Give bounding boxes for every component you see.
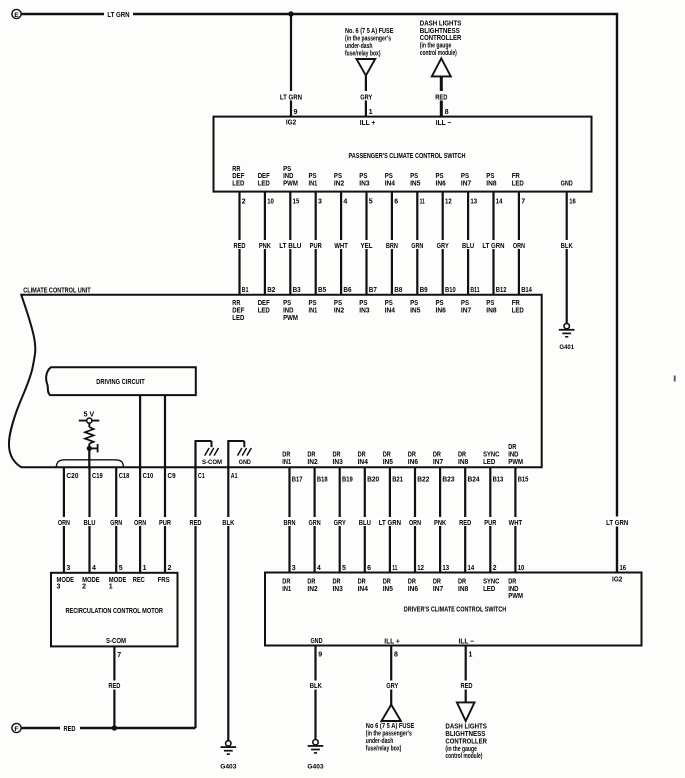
svg-text:YEL: YEL bbox=[360, 243, 373, 250]
svg-text:BRN: BRN bbox=[283, 520, 295, 527]
svg-text:2: 2 bbox=[168, 565, 172, 572]
svg-text:ILL +: ILL + bbox=[360, 118, 376, 127]
svg-text:ORN: ORN bbox=[58, 520, 70, 527]
svg-text:1: 1 bbox=[109, 583, 113, 590]
svg-text:IN1: IN1 bbox=[309, 308, 318, 315]
svg-text:2: 2 bbox=[242, 199, 246, 206]
svg-text:BLU: BLU bbox=[462, 243, 474, 250]
ground G403 (A1) bbox=[220, 741, 236, 771]
svg-text:GRY: GRY bbox=[437, 243, 449, 250]
svg-text:PS: PS bbox=[309, 173, 317, 180]
svg-text:DR: DR bbox=[458, 451, 466, 458]
svg-text:DR: DR bbox=[508, 578, 516, 585]
svg-text:B9: B9 bbox=[420, 287, 428, 294]
pin PS IN6 label (passenger switch, pin 12) bbox=[436, 173, 446, 187]
svg-text:DRIVER'S CLIMATE CONTROL SWITC: DRIVER'S CLIMATE CONTROL SWITCH bbox=[404, 604, 507, 613]
svg-text:IND: IND bbox=[283, 308, 293, 315]
svg-text:LT GRN: LT GRN bbox=[107, 12, 129, 19]
svg-text:PS: PS bbox=[385, 173, 393, 180]
svg-text:11: 11 bbox=[420, 199, 425, 206]
svg-text:DR: DR bbox=[333, 578, 341, 585]
svg-text:PUR: PUR bbox=[310, 243, 322, 250]
pin PS IN2 label (passenger switch, pin 4) bbox=[334, 173, 344, 187]
wire GRN from unit B18 to driver switch pin 4 bbox=[308, 467, 328, 572]
svg-text:BLK: BLK bbox=[310, 683, 322, 690]
wire PUR from unit B13 to driver switch pin 2 bbox=[483, 467, 503, 572]
wire BLU from passenger switch pin 13 to climate control unit B11 bbox=[461, 192, 480, 295]
svg-text:RR: RR bbox=[232, 166, 240, 173]
pin DR IN1 label (climate control unit bottom) bbox=[282, 451, 291, 465]
svg-text:control module): control module) bbox=[445, 753, 482, 760]
svg-text:3: 3 bbox=[57, 583, 61, 590]
wire RED from motor S-COM pin 7 to junction bbox=[107, 646, 123, 728]
dash lights brightness controller symbol (top) bbox=[432, 58, 451, 76]
svg-text:7: 7 bbox=[521, 199, 525, 206]
wire BLU from unit B20 to driver switch pin 6 bbox=[358, 467, 380, 572]
pin DEF LED label (climate control unit top) bbox=[258, 300, 271, 314]
svg-text:under-dash: under-dash bbox=[366, 738, 394, 745]
svg-text:1: 1 bbox=[469, 651, 473, 658]
pin PS IN5 label (climate control unit top) bbox=[410, 300, 420, 314]
svg-text:12: 12 bbox=[417, 565, 424, 572]
wire wiper to C19 bbox=[88, 448, 90, 467]
pin DR IN4 label (driver switch top) bbox=[358, 578, 368, 592]
svg-text:IN3: IN3 bbox=[333, 459, 343, 466]
svg-text:PS: PS bbox=[436, 173, 444, 180]
svg-text:PS: PS bbox=[486, 300, 494, 307]
pin PS IN3 label (passenger switch, pin 5) bbox=[359, 173, 369, 187]
svg-text:2: 2 bbox=[82, 583, 86, 590]
svg-text:LED: LED bbox=[483, 459, 495, 466]
svg-text:IN2: IN2 bbox=[334, 308, 344, 315]
svg-text:GRY: GRY bbox=[334, 520, 346, 527]
svg-text:BLIGHTNESS: BLIGHTNESS bbox=[420, 28, 460, 35]
svg-text:16: 16 bbox=[620, 565, 627, 572]
svg-text:PUR: PUR bbox=[159, 520, 171, 527]
pin DR IN8 label (climate control unit bottom) bbox=[458, 451, 468, 465]
pin DR IN1 label (driver switch top) bbox=[282, 578, 291, 592]
pin ILL+ label (passenger switch) bbox=[360, 118, 376, 127]
wire GRN from passenger switch pin 11 to climate control unit B9 bbox=[410, 192, 428, 295]
resistor (5V pull-up) bbox=[85, 423, 94, 448]
pin RR DEF LED label (passenger switch, pin 2) bbox=[232, 166, 245, 188]
svg-text:CONTROLLER: CONTROLLER bbox=[445, 738, 487, 745]
svg-text:GRN: GRN bbox=[309, 520, 321, 527]
svg-text:GRN: GRN bbox=[411, 243, 423, 250]
svg-text:8: 8 bbox=[394, 651, 398, 658]
pin DR IN2 label (driver switch top) bbox=[307, 578, 317, 592]
svg-text:G401: G401 bbox=[559, 344, 574, 351]
svg-text:PASSENGER'S CLIMATE CONTROL SW: PASSENGER'S CLIMATE CONTROL SWITCH bbox=[349, 151, 466, 160]
svg-text:GRY: GRY bbox=[386, 683, 398, 690]
svg-text:A1: A1 bbox=[231, 473, 238, 480]
5V supply symbol bbox=[79, 411, 100, 423]
chassis symbol GND (A1) bbox=[227, 441, 251, 467]
svg-text:IN7: IN7 bbox=[433, 586, 443, 593]
svg-text:DR: DR bbox=[383, 451, 391, 458]
pin FR LED label (climate control unit top) bbox=[512, 300, 524, 314]
wire C9 from driving circuit bbox=[164, 395, 166, 467]
svg-text:3: 3 bbox=[318, 199, 322, 206]
svg-text:E: E bbox=[14, 12, 19, 19]
driving circuit box (torn left edge) bbox=[46, 367, 196, 395]
svg-text:PS: PS bbox=[410, 300, 418, 307]
svg-text:G403: G403 bbox=[220, 763, 236, 770]
svg-text:4: 4 bbox=[343, 199, 347, 206]
svg-text:ORN: ORN bbox=[134, 520, 146, 527]
svg-text:DRIVING CIRCUIT: DRIVING CIRCUIT bbox=[96, 377, 145, 386]
wire WHT from passenger switch pin 4 to climate control unit B6 bbox=[333, 192, 351, 295]
pin PS IND PWM label (climate control unit top) bbox=[283, 300, 298, 322]
svg-text:DASH LIGHTS: DASH LIGHTS bbox=[420, 20, 462, 27]
wire ORN from unit pin C20 to recirculation motor pin 3 bbox=[57, 467, 79, 573]
svg-text:No 6 (7 5 A) FUSE: No 6 (7 5 A) FUSE bbox=[366, 723, 415, 730]
svg-text:BLIGHTNESS: BLIGHTNESS bbox=[445, 731, 485, 738]
svg-text:DR: DR bbox=[358, 578, 366, 585]
wire LT GRN from passenger switch pin 14 to climate control unit B12 bbox=[481, 192, 506, 295]
pin ILL- label (driver switch bottom, pin 1) bbox=[459, 636, 475, 645]
svg-text:B19: B19 bbox=[342, 476, 353, 483]
svg-text:LT GRN: LT GRN bbox=[280, 94, 302, 101]
svg-text:C18: C18 bbox=[119, 473, 130, 480]
svg-text:LED: LED bbox=[232, 181, 244, 188]
svg-text:10: 10 bbox=[518, 565, 525, 572]
svg-text:DEF: DEF bbox=[232, 308, 245, 315]
svg-text:2: 2 bbox=[493, 565, 497, 572]
svg-text:PS: PS bbox=[283, 166, 291, 173]
svg-text:BLK: BLK bbox=[561, 243, 573, 250]
pin PS IN4 label (passenger switch, pin 6) bbox=[385, 173, 395, 187]
dash lights brightness controller symbol (bottom) bbox=[457, 702, 475, 721]
svg-text:BRN: BRN bbox=[386, 243, 398, 250]
svg-text:PNK: PNK bbox=[259, 243, 271, 250]
svg-text:IN4: IN4 bbox=[385, 308, 395, 315]
wire GRY from driver ILL+ pin 8 to fuse bbox=[383, 646, 400, 705]
svg-text:DR: DR bbox=[282, 451, 290, 458]
svg-text:DEF: DEF bbox=[258, 300, 271, 307]
svg-text:GRN: GRN bbox=[110, 520, 122, 527]
wire RED bottom rail F to C1 wire bbox=[21, 723, 195, 733]
pin S-COM label (recirculation motor, pin 7) bbox=[106, 638, 126, 645]
svg-text:GND: GND bbox=[561, 181, 573, 188]
svg-text:B1: B1 bbox=[242, 287, 249, 294]
svg-text:C10: C10 bbox=[143, 473, 154, 480]
svg-text:DR: DR bbox=[383, 578, 391, 585]
pin SYNC LED label (driver switch top) bbox=[483, 578, 499, 592]
pin DR IN5 label (climate control unit bottom) bbox=[383, 451, 393, 465]
svg-text:10: 10 bbox=[267, 199, 274, 206]
svg-text:G403: G403 bbox=[307, 763, 323, 770]
svg-text:IN8: IN8 bbox=[458, 459, 468, 466]
svg-text:C9: C9 bbox=[168, 473, 176, 480]
pin DR IN8 label (driver switch top) bbox=[458, 578, 468, 592]
pin DR IN2 label (climate control unit bottom) bbox=[307, 451, 317, 465]
pin MODE 2 label (recirculation motor, pin 4) bbox=[82, 577, 100, 591]
pin PS IN6 label (climate control unit top) bbox=[436, 300, 446, 314]
svg-text:LT GRN: LT GRN bbox=[379, 520, 401, 527]
svg-text:RED: RED bbox=[435, 94, 447, 101]
svg-text:LED: LED bbox=[258, 308, 270, 315]
svg-text:5: 5 bbox=[119, 565, 123, 572]
svg-text:RED: RED bbox=[460, 683, 472, 690]
svg-text:PWM: PWM bbox=[508, 593, 523, 600]
pin DR IN5 label (driver switch top) bbox=[383, 578, 393, 592]
pin DR IND PWM label (climate control unit bottom) bbox=[508, 444, 523, 466]
wire BLK from driver GND pin 9 to ground G403 bbox=[308, 646, 324, 740]
svg-text:B11: B11 bbox=[470, 287, 479, 294]
pin PS IN2 label (climate control unit top) bbox=[334, 300, 344, 314]
pin DR IN7 label (climate control unit bottom) bbox=[433, 451, 443, 465]
svg-text:15: 15 bbox=[293, 199, 300, 206]
wire GRN from unit pin C18 to recirculation motor pin 5 bbox=[109, 467, 129, 573]
pin PS IN5 label (passenger switch, pin 11) bbox=[410, 173, 420, 187]
connector F bbox=[12, 723, 21, 732]
svg-text:B15: B15 bbox=[518, 476, 529, 483]
svg-text:LED: LED bbox=[258, 181, 270, 188]
svg-text:(in the gauge: (in the gauge bbox=[445, 746, 477, 753]
pin REC label (recirculation motor, pin 1) bbox=[133, 577, 145, 584]
svg-text:DR: DR bbox=[358, 451, 366, 458]
pin GND label (passenger switch, pin 16) bbox=[561, 181, 573, 188]
svg-text:IN4: IN4 bbox=[358, 459, 368, 466]
svg-text:GND: GND bbox=[310, 638, 322, 645]
fuse No.6 label (bottom) bbox=[366, 723, 415, 752]
svg-text:LT GRN: LT GRN bbox=[606, 520, 628, 527]
svg-text:GND: GND bbox=[239, 459, 251, 466]
svg-text:C1: C1 bbox=[198, 473, 205, 480]
wire BLK from passenger switch GND pin 16 to ground G401 bbox=[559, 192, 576, 324]
svg-text:FR: FR bbox=[512, 173, 520, 180]
pin DEF LED label (passenger switch, pin 10) bbox=[258, 173, 271, 187]
pin PS IN1 label (passenger switch, pin 3) bbox=[309, 173, 318, 187]
svg-text:PS: PS bbox=[334, 173, 342, 180]
pin PS IN7 label (passenger switch, pin 13) bbox=[461, 173, 471, 187]
svg-text:IN8: IN8 bbox=[486, 181, 496, 188]
svg-text:SYNC: SYNC bbox=[483, 578, 499, 585]
node wiper junction bbox=[87, 444, 98, 452]
svg-text:6: 6 bbox=[394, 199, 398, 206]
svg-text:IN3: IN3 bbox=[359, 308, 369, 315]
svg-text:C19: C19 bbox=[92, 473, 103, 480]
svg-text:B17: B17 bbox=[292, 476, 303, 483]
svg-text:IN1: IN1 bbox=[282, 586, 291, 593]
svg-text:IN1: IN1 bbox=[309, 181, 318, 188]
pin IG2 label (passenger switch) bbox=[286, 120, 296, 127]
pin DR IN6 label (climate control unit bottom) bbox=[408, 451, 418, 465]
svg-text:GRY: GRY bbox=[360, 94, 372, 101]
connector E bbox=[12, 9, 21, 18]
svg-text:DASH LIGHTS: DASH LIGHTS bbox=[445, 724, 487, 731]
svg-text:13: 13 bbox=[470, 199, 477, 206]
dash lights controller label (top) bbox=[420, 20, 462, 57]
svg-text:WHT: WHT bbox=[334, 243, 348, 250]
svg-text:IN5: IN5 bbox=[410, 181, 420, 188]
svg-text:DR: DR bbox=[333, 451, 341, 458]
wire LT BLU from passenger switch pin 15 to climate control unit B3 bbox=[278, 192, 302, 295]
svg-text:BLU: BLU bbox=[83, 520, 95, 527]
pin DR IND PWM label (driver switch top) bbox=[508, 578, 523, 600]
svg-text:(in the gauge: (in the gauge bbox=[420, 43, 452, 50]
svg-text:SYNC: SYNC bbox=[483, 451, 499, 458]
svg-text:5: 5 bbox=[342, 565, 346, 572]
svg-text:IN8: IN8 bbox=[486, 308, 496, 315]
svg-text:B7: B7 bbox=[369, 287, 377, 294]
pin SYNC LED label (climate control unit bottom) bbox=[483, 451, 499, 465]
svg-text:1: 1 bbox=[143, 565, 147, 572]
svg-text:13: 13 bbox=[442, 565, 449, 572]
svg-text:B6: B6 bbox=[343, 287, 351, 294]
svg-text:LT BLU: LT BLU bbox=[279, 243, 301, 250]
svg-text:DR: DR bbox=[508, 444, 516, 451]
svg-text:PWM: PWM bbox=[283, 315, 298, 322]
svg-text:under-dash: under-dash bbox=[345, 43, 373, 50]
wire LT GRN top rail bbox=[21, 9, 618, 19]
dash lights controller label (bottom) bbox=[445, 724, 487, 761]
wire ORN from unit pin C10 to recirculation motor pin 1 bbox=[133, 467, 153, 573]
svg-text:PUR: PUR bbox=[484, 520, 496, 527]
svg-text:4: 4 bbox=[317, 565, 321, 572]
svg-text:PS: PS bbox=[309, 300, 317, 307]
svg-text:F: F bbox=[14, 726, 18, 733]
svg-text:IN6: IN6 bbox=[436, 308, 446, 315]
svg-text:DEF: DEF bbox=[232, 173, 245, 180]
pin PS IN1 label (climate control unit top) bbox=[309, 300, 318, 314]
pin MODE 3 label (recirculation motor, pin 3) bbox=[57, 577, 75, 591]
svg-text:PWM: PWM bbox=[283, 181, 298, 188]
svg-text:9: 9 bbox=[294, 107, 298, 116]
svg-text:3: 3 bbox=[292, 565, 296, 572]
wire LT GRN to IG2 pin 9 bbox=[278, 14, 304, 117]
svg-text:IG2: IG2 bbox=[286, 120, 296, 127]
svg-text:IN7: IN7 bbox=[433, 459, 443, 466]
svg-text:fuse/relay box): fuse/relay box) bbox=[345, 50, 381, 57]
pin DR IN3 label (driver switch top) bbox=[333, 578, 343, 592]
svg-text:8: 8 bbox=[445, 107, 449, 116]
wire PUR from passenger switch pin 3 to climate control unit B5 bbox=[309, 192, 327, 295]
svg-text:control module): control module) bbox=[420, 50, 457, 57]
svg-text:11: 11 bbox=[392, 565, 397, 572]
svg-text:IN5: IN5 bbox=[383, 586, 393, 593]
svg-text:B13: B13 bbox=[493, 476, 504, 483]
pin PS IN3 label (climate control unit top) bbox=[359, 300, 369, 314]
svg-text:BLK: BLK bbox=[222, 520, 234, 527]
svg-text:RR: RR bbox=[232, 300, 240, 307]
fuse No.6 (7.5A) symbol (top) bbox=[357, 59, 376, 76]
pin MODE 1 label (recirculation motor, pin 5) bbox=[109, 577, 127, 591]
recirculation control motor box bbox=[51, 573, 178, 647]
svg-text:RED: RED bbox=[108, 683, 120, 690]
svg-text:4: 4 bbox=[92, 565, 96, 572]
svg-text:IN8: IN8 bbox=[458, 586, 468, 593]
svg-text:B22: B22 bbox=[417, 476, 429, 483]
svg-text:IND: IND bbox=[508, 451, 518, 458]
svg-text:ILL +: ILL + bbox=[384, 636, 400, 645]
svg-text:B3: B3 bbox=[293, 287, 301, 294]
wire YEL from passenger switch pin 5 to climate control unit B7 bbox=[359, 192, 377, 295]
svg-text:B2: B2 bbox=[267, 287, 275, 294]
svg-text:IN3: IN3 bbox=[333, 586, 343, 593]
pin GND label (driver switch bottom, pin 9) bbox=[310, 638, 322, 645]
svg-text:PS: PS bbox=[461, 173, 469, 180]
wire PUR from unit pin C9 to recirculation motor pin 2 bbox=[158, 467, 176, 573]
svg-text:S-COM: S-COM bbox=[202, 459, 222, 466]
svg-text:BLU: BLU bbox=[359, 520, 371, 527]
svg-text:ORN: ORN bbox=[409, 520, 421, 527]
wire RED from driver ILL- pin 1 to controller bbox=[458, 646, 474, 703]
svg-text:5: 5 bbox=[369, 199, 373, 206]
svg-text:IN2: IN2 bbox=[307, 459, 317, 466]
pin DR IN4 label (climate control unit bottom) bbox=[358, 451, 368, 465]
svg-text:LED: LED bbox=[483, 586, 495, 593]
node junction top rail / IG2 drop bbox=[288, 11, 293, 16]
svg-text:PNK: PNK bbox=[434, 520, 446, 527]
wire LT GRN right side rail to driver IG2 pin 16 bbox=[604, 14, 631, 573]
svg-text:B12: B12 bbox=[496, 287, 507, 294]
pin DR IN7 label (driver switch top) bbox=[433, 578, 443, 592]
svg-text:IN5: IN5 bbox=[383, 459, 393, 466]
brace over C20 C19 C18 bbox=[56, 460, 123, 468]
svg-text:7: 7 bbox=[117, 652, 121, 659]
svg-text:C20: C20 bbox=[66, 473, 78, 480]
svg-text:1: 1 bbox=[369, 107, 373, 116]
wire LT GRN from unit B21 to driver switch pin 11 bbox=[378, 467, 403, 572]
passenger's climate control switch box bbox=[214, 117, 592, 192]
svg-text:B20: B20 bbox=[367, 476, 379, 483]
svg-text:DR: DR bbox=[408, 578, 416, 585]
svg-text:RED: RED bbox=[459, 520, 471, 527]
svg-text:B8: B8 bbox=[394, 287, 402, 294]
svg-text:S-COM: S-COM bbox=[106, 638, 126, 645]
svg-text:(in the passenger’s: (in the passenger’s bbox=[345, 36, 391, 43]
svg-text:14: 14 bbox=[468, 565, 475, 572]
pin ILL- label (passenger switch) bbox=[436, 118, 452, 127]
svg-text:6: 6 bbox=[367, 565, 371, 572]
fuse No.6 label (top) bbox=[345, 28, 394, 57]
pin DR IN3 label (climate control unit bottom) bbox=[333, 451, 343, 465]
wire PNK from passenger switch pin 10 to climate control unit B2 bbox=[258, 192, 276, 295]
svg-text:B21: B21 bbox=[392, 476, 403, 483]
svg-text:FRS: FRS bbox=[158, 577, 170, 584]
driver's climate control switch box bbox=[265, 573, 642, 646]
svg-text:WHT: WHT bbox=[509, 520, 523, 527]
svg-text:PS: PS bbox=[461, 300, 469, 307]
svg-text:DR: DR bbox=[307, 451, 315, 458]
wire GRY fuse to ILL+ pin 1 bbox=[357, 76, 375, 117]
pin ILL+ label (driver switch bottom, pin 8) bbox=[384, 636, 400, 645]
wire RED from passenger switch pin 2 to climate control unit B1 bbox=[232, 192, 248, 295]
svg-text:REC: REC bbox=[133, 577, 145, 584]
fuse No.6 (7.5A) symbol (bottom) bbox=[382, 705, 401, 721]
svg-text:IN7: IN7 bbox=[461, 308, 471, 315]
pin DR IN6 label (driver switch top) bbox=[408, 578, 418, 592]
svg-text:RED: RED bbox=[189, 520, 201, 527]
svg-text:IN1: IN1 bbox=[282, 459, 291, 466]
wire RED from unit pin C1 down bbox=[188, 467, 205, 728]
svg-text:PS: PS bbox=[410, 173, 418, 180]
svg-text:LT GRN: LT GRN bbox=[482, 243, 504, 250]
wire RED controller to ILL- pin 8 bbox=[433, 76, 450, 116]
svg-text:FR: FR bbox=[512, 300, 520, 307]
svg-text:14: 14 bbox=[496, 199, 503, 206]
svg-text:B18: B18 bbox=[317, 476, 328, 483]
wire PNK from unit B23 to driver switch pin 13 bbox=[433, 467, 455, 572]
svg-text:PS: PS bbox=[385, 300, 393, 307]
svg-text:DR: DR bbox=[408, 451, 416, 458]
pin PS IN8 label (passenger switch, pin 14) bbox=[486, 173, 496, 187]
wire ORN from passenger switch pin 7 to climate control unit B14 bbox=[512, 192, 532, 295]
ground G401 bbox=[559, 323, 575, 351]
pin IG2 label (driver switch, pin 16) bbox=[612, 576, 622, 583]
